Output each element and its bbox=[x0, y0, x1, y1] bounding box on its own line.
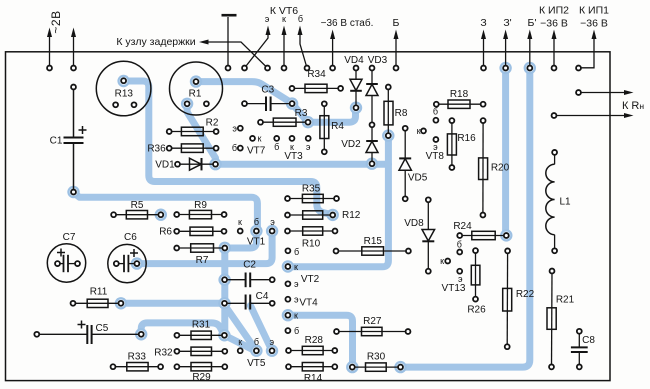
resistor R24 bbox=[460, 235, 507, 237]
svg-text:э: э bbox=[265, 14, 270, 24]
svg-text:к: к bbox=[294, 262, 298, 272]
wire Z' bbox=[505, 34, 507, 68]
capacitor C7 can bbox=[47, 244, 85, 282]
svg-text:э: э bbox=[294, 294, 299, 304]
solder pads bbox=[34, 66, 581, 370]
svg-text:R5: R5 bbox=[131, 200, 144, 211]
capacitor C1 bbox=[73, 87, 75, 137]
wire R11 to C4 bbox=[121, 300, 225, 307]
svg-text:R22: R22 bbox=[516, 289, 535, 300]
wire R1 top to C3 R3 VD4 bbox=[196, 82, 356, 123]
svg-text:R2: R2 bbox=[206, 118, 219, 129]
svg-text:VT5: VT5 bbox=[247, 358, 266, 369]
svg-text:VT13: VT13 bbox=[442, 283, 466, 294]
resistor R5 bbox=[114, 214, 161, 216]
svg-text:Б: Б bbox=[393, 17, 400, 29]
arrowheads bbox=[47, 26, 634, 119]
diode VD3 bbox=[371, 68, 373, 84]
wire VT4 collector to R30 bbox=[288, 315, 353, 367]
resistor R9 bbox=[177, 214, 224, 216]
wire R7 down through C2 C4 to R31 bbox=[221, 248, 228, 335]
svg-text:R32: R32 bbox=[154, 347, 173, 358]
svg-text:VT3: VT3 bbox=[284, 151, 303, 162]
svg-text:R9: R9 bbox=[194, 200, 207, 211]
svg-text:э: э bbox=[306, 142, 311, 152]
wire VD1 to VD2 long horizontal bbox=[216, 161, 389, 168]
wire K Rn 2 bbox=[554, 115, 629, 117]
wire to delay node bbox=[203, 42, 268, 68]
resistor R8 bbox=[387, 87, 389, 136]
svg-text:к: к bbox=[440, 256, 444, 266]
svg-text:R31: R31 bbox=[192, 320, 211, 331]
svg-text:C5: C5 bbox=[96, 323, 109, 334]
svg-text:R8: R8 bbox=[395, 108, 408, 119]
svg-text:R34: R34 bbox=[307, 69, 326, 80]
capacitor C3 bbox=[245, 103, 267, 105]
capacitor C2 bbox=[225, 279, 246, 281]
svg-text:VT4: VT4 bbox=[299, 298, 318, 309]
svg-text:R13: R13 bbox=[115, 88, 134, 99]
svg-text:б: б bbox=[298, 14, 303, 24]
wire Z' vertical bbox=[502, 68, 509, 235]
resistor R13 can bbox=[96, 61, 151, 116]
svg-text:~2В: ~2В bbox=[49, 10, 63, 33]
svg-text:Б': Б' bbox=[528, 17, 537, 29]
svg-text:R26: R26 bbox=[467, 305, 486, 316]
resistor R6 bbox=[177, 230, 224, 232]
svg-text:−36 В: −36 В bbox=[540, 18, 568, 30]
capacitor C8 bbox=[578, 331, 580, 347]
svg-text:R16: R16 bbox=[457, 133, 476, 144]
capacitor C4 bbox=[225, 302, 246, 304]
svg-text:VT1: VT1 bbox=[247, 236, 266, 247]
svg-text:к: к bbox=[258, 134, 262, 144]
svg-text:VD5: VD5 bbox=[408, 173, 428, 184]
resistor R11 bbox=[73, 302, 121, 304]
svg-text:R35: R35 bbox=[302, 184, 321, 195]
resistor R34 bbox=[292, 87, 341, 89]
resistor R20 bbox=[482, 121, 484, 215]
svg-text:R18: R18 bbox=[450, 89, 469, 100]
svg-text:З: З bbox=[480, 17, 486, 29]
svg-text:C4: C4 bbox=[256, 291, 269, 302]
svg-text:R24: R24 bbox=[453, 221, 472, 232]
svg-text:VD8: VD8 bbox=[404, 218, 424, 229]
node ~2V arrow 1 bbox=[49, 36, 51, 68]
svg-text:R11: R11 bbox=[90, 286, 108, 297]
wire C5 to R31 bbox=[141, 323, 224, 335]
diode VD1 bbox=[178, 163, 216, 165]
svg-text:б: б bbox=[254, 337, 259, 347]
resistor R12 bbox=[288, 214, 333, 216]
pad halos bbox=[67, 62, 536, 374]
resistor R22 bbox=[506, 251, 508, 347]
svg-text:R6: R6 bbox=[159, 227, 172, 238]
svg-text:C7: C7 bbox=[63, 232, 76, 243]
svg-text:VT2: VT2 bbox=[301, 274, 320, 285]
svg-text:б: б bbox=[457, 240, 462, 250]
svg-text:К Rн: К Rн bbox=[622, 100, 644, 112]
capacitor C5 bbox=[37, 333, 87, 335]
resistor R21 bbox=[551, 271, 554, 367]
svg-text:VD2: VD2 bbox=[341, 139, 361, 150]
svg-text:э: э bbox=[232, 123, 237, 133]
svg-text:б: б bbox=[433, 107, 438, 117]
wire C6 to VT1 emitter bbox=[137, 232, 272, 264]
wire R7 to VT1 base bbox=[225, 232, 257, 249]
antenna symbol bbox=[227, 17, 229, 68]
wire R31 to VT5 base bbox=[224, 335, 253, 350]
wire VT6 collector bbox=[283, 30, 285, 68]
resistor R26 bbox=[475, 251, 477, 300]
svg-text:б: б bbox=[294, 326, 299, 336]
svg-text:э: э bbox=[270, 337, 275, 347]
svg-text:б: б bbox=[274, 142, 279, 152]
svg-text:L1: L1 bbox=[560, 197, 572, 208]
wire R13 top to R12 bbox=[124, 81, 332, 215]
resistor R7 bbox=[177, 247, 225, 249]
diode VD5 bbox=[404, 128, 406, 158]
wire -36V stab bbox=[332, 34, 334, 68]
wire B' vertical to R30 bbox=[401, 68, 530, 367]
svg-text:б: б bbox=[294, 247, 299, 257]
wire C4 plate to VT5 emitter bbox=[250, 306, 272, 351]
resistor R15 bbox=[336, 250, 408, 252]
svg-text:VD3: VD3 bbox=[368, 55, 388, 66]
svg-text:З': З' bbox=[503, 17, 511, 29]
svg-text:R3: R3 bbox=[295, 108, 308, 119]
svg-text:R20: R20 bbox=[491, 163, 510, 174]
svg-text:R4: R4 bbox=[331, 121, 344, 132]
wire Z bbox=[483, 34, 485, 68]
svg-text:C3: C3 bbox=[261, 85, 274, 96]
resistor R36 bbox=[169, 147, 216, 149]
svg-text:э: э bbox=[270, 217, 275, 227]
svg-text:R15: R15 bbox=[364, 236, 383, 247]
svg-text:R21: R21 bbox=[556, 295, 575, 306]
svg-text:C1: C1 bbox=[50, 136, 63, 147]
svg-text:к: к bbox=[238, 217, 242, 227]
resistor R30 bbox=[352, 366, 400, 368]
svg-text:R27: R27 bbox=[363, 316, 382, 327]
svg-text:к: к bbox=[417, 126, 421, 136]
resistor R27 bbox=[337, 331, 409, 333]
svg-text:−36 В: −36 В bbox=[580, 18, 608, 30]
wire IP2 bbox=[553, 34, 555, 68]
svg-text:R1: R1 bbox=[189, 88, 202, 99]
resistor R33 bbox=[113, 366, 161, 368]
svg-text:VT7: VT7 bbox=[247, 145, 266, 156]
wire R8 down to VT2 collector bbox=[288, 136, 389, 267]
svg-text:R12: R12 bbox=[342, 210, 361, 221]
resistor R16 bbox=[451, 121, 453, 168]
wire R1 pin to VD1 bbox=[187, 104, 215, 164]
svg-text:R36: R36 bbox=[147, 143, 166, 154]
resistor R32 bbox=[177, 350, 225, 352]
svg-text:к: к bbox=[294, 310, 298, 320]
svg-text:э: э bbox=[294, 279, 299, 289]
svg-text:К ИП1: К ИП1 bbox=[579, 5, 609, 17]
resistor R10 bbox=[288, 230, 336, 232]
svg-text:б: б bbox=[254, 217, 259, 227]
svg-text:к: к bbox=[238, 337, 242, 347]
inductor L1 bbox=[554, 152, 556, 164]
board border bbox=[6, 52, 611, 381]
wire K Rn 1 bbox=[579, 92, 630, 94]
svg-text:R7: R7 bbox=[196, 255, 209, 266]
wire VT6 emitter bbox=[245, 30, 269, 68]
svg-text:R29: R29 bbox=[192, 372, 211, 383]
resistor R18 bbox=[436, 103, 483, 105]
svg-text:VT8: VT8 bbox=[426, 151, 445, 162]
svg-text:К ИП2: К ИП2 bbox=[539, 5, 569, 17]
diode VD8 bbox=[427, 200, 429, 230]
svg-text:R28: R28 bbox=[305, 335, 324, 346]
diode VD4 bbox=[355, 68, 357, 79]
capacitor C6 can bbox=[108, 244, 146, 282]
svg-text:R30: R30 bbox=[367, 351, 386, 362]
resistor R14 bbox=[289, 366, 335, 368]
svg-text:К узлу задержки: К узлу задержки bbox=[116, 36, 195, 48]
transistor R1 can bbox=[170, 62, 223, 115]
resistor R29 bbox=[177, 366, 225, 368]
svg-text:C2: C2 bbox=[243, 259, 256, 270]
svg-text:R14: R14 bbox=[304, 373, 323, 384]
wire VT6 base bbox=[300, 30, 307, 68]
svg-text:к: к bbox=[282, 14, 286, 24]
diode VD2 bbox=[371, 125, 373, 141]
svg-text:C8: C8 bbox=[582, 335, 595, 346]
wire IP1 bbox=[579, 34, 595, 68]
wire B' bbox=[529, 34, 531, 68]
resistor R3 bbox=[261, 121, 309, 123]
svg-text:−36 В стаб.: −36 В стаб. bbox=[321, 17, 374, 29]
resistor R35 bbox=[288, 198, 337, 200]
resistor R2 bbox=[169, 131, 216, 133]
wire B bbox=[395, 34, 397, 68]
svg-text:VD4: VD4 bbox=[344, 55, 364, 66]
svg-text:б: б bbox=[232, 143, 237, 153]
svg-text:VD1: VD1 bbox=[155, 159, 175, 170]
resistor R4 bbox=[323, 104, 325, 152]
svg-text:R33: R33 bbox=[128, 352, 147, 363]
svg-text:R10: R10 bbox=[302, 239, 321, 250]
wire C1 to VT1 base bbox=[74, 193, 258, 232]
node ~2V arrow 2 bbox=[73, 36, 75, 68]
resistor R28 bbox=[289, 350, 335, 352]
wire C4 to VT5 base bbox=[225, 305, 257, 351]
svg-text:C6: C6 bbox=[124, 232, 137, 243]
resistor R31 bbox=[177, 334, 225, 336]
